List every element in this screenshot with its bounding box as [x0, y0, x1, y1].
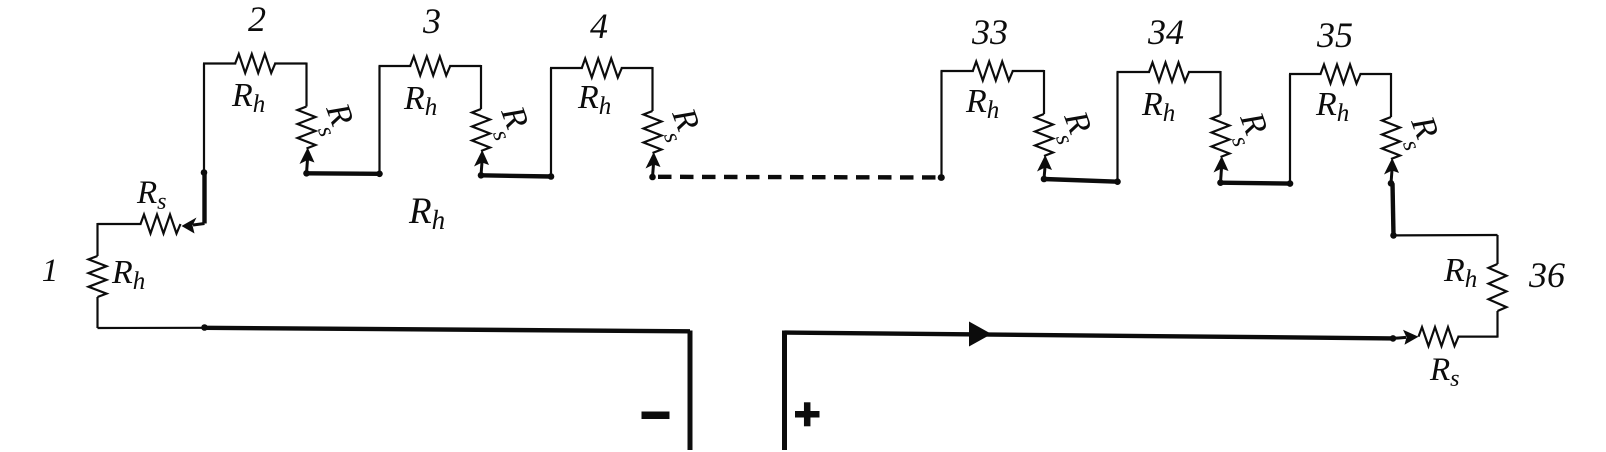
- resistor R_h 1 (vertical zigzag): [89, 256, 107, 297]
- wire lead right of R_s 36: [1458, 336, 1498, 338]
- wire left vertical of cell 33: [940, 71, 942, 178]
- node junction below R_s 33: [1041, 176, 1048, 183]
- wire top lead right of R_h 2: [274, 62, 306, 64]
- node junction positive rail at cell 36 wiper: [1390, 335, 1397, 342]
- wire top lead right of R_h 35: [1360, 73, 1392, 75]
- node junction at bottom of left wire of cell 3: [376, 171, 383, 178]
- node junction below R_s 4: [649, 174, 656, 181]
- resistor R_h 34 (horizontal zigzag): [1149, 63, 1189, 82]
- node junction at bottom of left wire of cell 2: [201, 169, 208, 176]
- resistor R_s 35 (vertical zigzag): [1382, 117, 1400, 159]
- wire battery positive terminal vertical: [782, 331, 787, 451]
- wiper arrow pointing right into R_s 36: [1393, 337, 1406, 338]
- wire thick link cell2 to cell3: [307, 171, 380, 176]
- wire left vertical of cell 34: [1116, 72, 1118, 182]
- wire right vertical upper lead of cell 36: [1496, 235, 1498, 264]
- wire thin bottom lead from cell 1: [98, 327, 206, 329]
- wire thick link cell34 to cell35: [1221, 180, 1291, 185]
- wire thick link cell33 to cell34: [1044, 179, 1118, 182]
- svg-text:35: 35: [1316, 15, 1353, 55]
- wiper arrow pointing left into R_s 1: [193, 224, 205, 226]
- resistor R_s 1 (horizontal zigzag): [141, 215, 181, 234]
- wiper arrow pointing up into R_s 3: [481, 162, 482, 175]
- node junction below R_s 3: [478, 172, 485, 179]
- wire right vertical lead down to R_s 4: [651, 67, 653, 111]
- node junction on negative rail: [201, 324, 208, 331]
- resistor R_h 35 (horizontal zigzag): [1321, 65, 1361, 84]
- node junction below R_s 34: [1217, 179, 1224, 186]
- node junction at cell 35 drop: [1390, 232, 1397, 239]
- node junction below R_s 2: [303, 170, 310, 177]
- wire dashed link cell4 to cell33 (omitted cells): [658, 175, 941, 180]
- wiper arrow pointing up into R_s 34: [1221, 168, 1222, 183]
- svg-text:1: 1: [42, 253, 59, 289]
- wire top lead right of R_h 33: [1012, 70, 1044, 72]
- wire thick link cell3 to cell4: [481, 175, 551, 176]
- wire top lead right of R_h 34: [1188, 71, 1221, 73]
- wire right vertical lead down to R_s 34: [1219, 71, 1221, 115]
- svg-text:2: 2: [248, 0, 266, 39]
- node junction at bottom of left wire of cell 4: [548, 173, 555, 180]
- wire thick vertical drop from cell 35 wiper node: [1393, 183, 1394, 235]
- wire top lead left of R_h 33: [941, 70, 974, 72]
- wiper arrow pointing up into R_s 35: [1391, 170, 1392, 183]
- wiper arrow pointing up into R_s 2: [307, 160, 308, 174]
- wire thick negative rail to battery: [205, 328, 691, 332]
- wire right vertical lead down to R_s 2: [305, 63, 307, 107]
- label minus sign: [642, 412, 670, 420]
- svg-text:3: 3: [422, 1, 441, 41]
- resistor R_h 3 (horizontal zigzag): [410, 57, 450, 76]
- wire left vertical of cell 3: [378, 66, 380, 174]
- wire top lead left of R_h 35: [1289, 73, 1322, 75]
- wire thick vertical drop from cell 2 left node down to wiper of cell 1: [202, 173, 206, 224]
- svg-text:34: 34: [1147, 12, 1184, 52]
- wiper arrow pointing up into R_s 4: [653, 164, 654, 177]
- node junction at bottom of left wire of cell 35: [1287, 180, 1294, 187]
- resistor R_s 4 (vertical zigzag): [644, 111, 662, 153]
- wire left vertical lower lead of cell 1: [96, 297, 98, 328]
- wire top lead left of R_h 2: [203, 62, 236, 64]
- wire right vertical lead down to R_s 33: [1043, 70, 1045, 114]
- resistor R_h 2 (horizontal zigzag): [235, 54, 275, 73]
- svg-text:33: 33: [971, 12, 1008, 52]
- resistor R_h 33 (horizontal zigzag): [973, 62, 1013, 81]
- wire top lead left of R_h 34: [1117, 71, 1151, 73]
- wire left vertical upper lead of cell 1: [96, 223, 98, 256]
- wire left vertical of cell 35: [1289, 74, 1291, 184]
- wire top lead right of R_h 4: [621, 67, 653, 69]
- resistor R_s 3 (vertical zigzag): [472, 109, 490, 151]
- wiper arrow pointing up into R_s 33: [1044, 167, 1045, 179]
- label plus sign: [795, 411, 820, 418]
- resistor R_s 2 (vertical zigzag): [298, 107, 316, 149]
- wire lead left of R_s 1: [98, 223, 142, 225]
- wire right vertical lead down to R_s 3: [480, 65, 482, 109]
- node right end of dashed wire: [938, 174, 945, 181]
- wire top lead left of R_h 4: [550, 67, 583, 69]
- resistor R_h 36 (vertical zigzag): [1489, 264, 1507, 311]
- svg-text:36: 36: [1528, 255, 1565, 295]
- resistor R_s 36 (horizontal zigzag): [1419, 327, 1459, 346]
- node junction at bottom of left wire of cell 34: [1114, 178, 1121, 185]
- wire horizontal link from cell 36 top to cell 35 wiper: [1394, 234, 1498, 237]
- wire top lead right of R_h 3: [449, 65, 481, 67]
- wire right vertical lead down to R_s 35: [1390, 73, 1392, 117]
- wire right vertical lower lead of cell 36: [1496, 311, 1498, 338]
- resistor R_s 34 (vertical zigzag): [1212, 115, 1230, 157]
- node junction at bottom of left wire of cell 33: [938, 174, 945, 181]
- svg-text:4: 4: [590, 6, 608, 46]
- wire battery negative terminal vertical: [688, 331, 693, 451]
- resistor R_s 33 (vertical zigzag): [1035, 114, 1053, 156]
- wire left vertical of cell 4: [550, 68, 552, 177]
- current direction arrow on positive rail: [969, 322, 992, 347]
- wire left vertical of cell 2: [203, 64, 205, 173]
- wire top lead left of R_h 3: [379, 65, 412, 67]
- wire thick positive rail from battery to cell 36: [785, 333, 1394, 339]
- resistor R_h 4 (horizontal zigzag): [582, 59, 622, 78]
- node junction below R_s 35: [1388, 180, 1395, 187]
